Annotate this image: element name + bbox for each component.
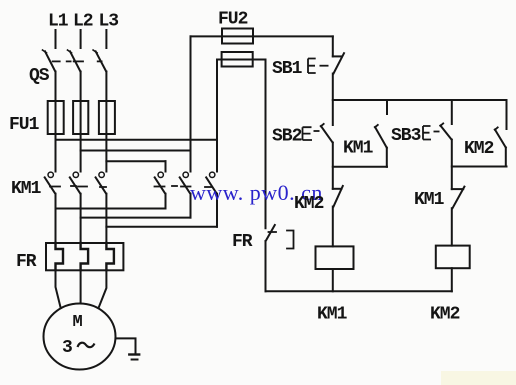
svg-text:KM2: KM2 — [294, 194, 324, 214]
svg-text:SB3: SB3 — [391, 126, 421, 146]
svg-text:KM1: KM1 — [414, 190, 445, 210]
svg-text:SB1: SB1 — [272, 59, 303, 79]
svg-text:KM2: KM2 — [464, 139, 494, 159]
svg-text:QS: QS — [29, 66, 50, 86]
svg-text:KM2: KM2 — [430, 305, 460, 325]
svg-text:SB2: SB2 — [272, 127, 302, 147]
svg-text:L1: L1 — [48, 12, 69, 32]
svg-text:3: 3 — [62, 338, 72, 358]
svg-text:L3: L3 — [99, 12, 119, 32]
svg-text:FR: FR — [232, 232, 253, 252]
svg-text:KM1: KM1 — [11, 179, 42, 199]
svg-text:FU2: FU2 — [218, 10, 248, 30]
svg-text:FU1: FU1 — [9, 115, 40, 135]
svg-text:FR: FR — [16, 252, 37, 272]
svg-text:KM1: KM1 — [343, 139, 374, 159]
svg-text:L2: L2 — [73, 12, 93, 32]
svg-text:M: M — [73, 313, 83, 332]
svg-text:KM1: KM1 — [317, 305, 348, 325]
